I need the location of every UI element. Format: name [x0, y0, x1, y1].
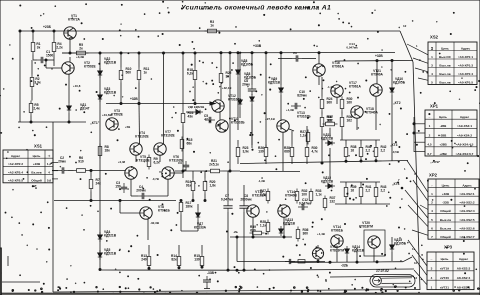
svg-text:Цепь: Цепь	[441, 257, 449, 261]
wire +33V rail	[62, 52, 395, 55]
wire VT14b VT20 drops	[337, 247, 374, 262]
svg-text:КТ3102Б: КТ3102Б	[297, 115, 311, 119]
capacitor C7 0,047мк	[221, 194, 234, 212]
wire bottom row tops	[149, 245, 202, 254]
connector table ХР1	[425, 104, 477, 157]
svg-text:-28В: -28В	[440, 133, 447, 137]
capacitor C2 20мк	[58, 156, 68, 174]
resistor R36b 360	[296, 227, 308, 242]
wire row2 tops	[340, 182, 380, 185]
capacitor C9	[278, 51, 316, 62]
title: Усилитель оконечный левого канала А1	[181, 4, 331, 12]
svg-text:200мк: 200мк	[136, 189, 146, 193]
label +32,1В	[222, 86, 231, 90]
svg-text:4: 4	[48, 170, 50, 174]
svg-text:=А9-ХS2:5: =А9-ХS2:5	[459, 218, 474, 222]
resistor R33 1,1к	[309, 189, 322, 204]
svg-text:150: 150	[115, 185, 121, 189]
label +1,3В	[286, 108, 294, 112]
resistor R23 3,9к	[236, 145, 249, 160]
transistor VT17	[331, 81, 362, 97]
wire mid feedback horizontal	[54, 200, 176, 202]
svg-text:+32В: +32В	[375, 54, 383, 58]
diode VD8c	[238, 53, 257, 118]
svg-text:Адрес: Адрес	[459, 257, 469, 261]
svg-text:=А2-ХР2:5: =А2-ХР2:5	[8, 179, 23, 183]
svg-text:+5В: +5В	[125, 125, 130, 129]
wire bottom-left frame stub	[2, 256, 40, 282]
svg-text:3,9к: 3,9к	[243, 150, 250, 154]
svg-text:КС133А: КС133А	[194, 226, 207, 230]
transistor VT16	[313, 61, 345, 76]
wire R5 to rail	[62, 52, 74, 54]
zener VD7 КС133А	[194, 210, 207, 230]
svg-text:+3,3В: +3,3В	[76, 55, 85, 59]
wire VD6 left	[186, 111, 193, 113]
label +32В mid arrow	[106, 97, 215, 105]
svg-text:←: ←	[430, 183, 433, 187]
wire VD8 net	[237, 52, 239, 130]
svg-text:82к: 82к	[171, 258, 177, 262]
resistor R32 100	[295, 189, 307, 204]
label +23В	[43, 25, 52, 29]
svg-text:КТ940В: КТ940В	[285, 194, 297, 198]
label +3,3В	[76, 55, 85, 59]
svg-text:Адрес: Адрес	[462, 183, 472, 187]
svg-text:+33В: +33В	[253, 44, 262, 48]
resistor R21 2х5,1к horizontal	[208, 159, 223, 173]
svg-text:11: 11	[412, 247, 415, 251]
wire VT21 drop	[375, 96, 377, 130]
svg-text:6: 6	[431, 226, 433, 230]
svg-text:=А9-ХS2:1: =А9-ХS2:1	[459, 192, 474, 196]
label +27,1В	[265, 117, 276, 121]
svg-text:130: 130	[258, 150, 264, 154]
svg-text:-1,3В: -1,3В	[258, 179, 265, 183]
capacitor C5 47	[204, 114, 215, 123]
svg-text:=А2-ХР2:4: =А2-ХР2:4	[8, 170, 23, 174]
resistor R3 (1к) on top rail	[205, 20, 220, 33]
svg-text:820мк: 820мк	[297, 94, 307, 98]
svg-text:ХР2: ХР2	[429, 173, 438, 178]
label -2В	[233, 230, 239, 234]
label С14 0,047мк	[346, 42, 358, 49]
label KT3	[390, 143, 399, 154]
svg-text:КТ961А: КТ961А	[332, 65, 344, 69]
svg-text:6,2к: 6,2к	[187, 72, 194, 76]
label +1,4В	[317, 232, 325, 236]
capacitor C11 small	[285, 259, 295, 264]
svg-text:←: ←	[428, 115, 431, 119]
resistor R24 360	[320, 97, 332, 112]
svg-text:ХS1: ХS1	[34, 144, 43, 149]
diode VD15	[390, 238, 407, 252]
svg-text:16: 16	[351, 149, 355, 153]
cable shield ellipse	[370, 275, 415, 288]
svg-text:68к: 68к	[187, 142, 193, 146]
svg-text:ХР1: ХР1	[430, 104, 439, 109]
svg-text:Общий: Общий	[440, 209, 451, 213]
svg-text:КД521В: КД521В	[104, 91, 117, 95]
svg-text:+1,4В: +1,4В	[317, 232, 325, 236]
transistor VT6	[162, 155, 184, 179]
label +17В note	[430, 160, 441, 164]
resistor R15b 68к	[180, 137, 192, 152]
wire C8 column	[251, 52, 253, 145]
resistor R5 2к horizontal	[74, 43, 89, 55]
svg-text:КД521В: КД521В	[104, 234, 117, 238]
svg-text:=А9-ХS2:4: =А9-ХS2:4	[459, 209, 474, 213]
svg-text:0,047мк: 0,047мк	[299, 202, 312, 206]
resistor R2 3,9к	[30, 75, 41, 90]
diode VD2	[98, 57, 117, 78]
svg-text:360: 360	[303, 232, 309, 236]
svg-text:-33В: -33В	[442, 201, 449, 205]
svg-text:2000мк: 2000мк	[240, 198, 252, 202]
wire lower mid rail	[230, 236, 292, 238]
svg-text:910: 910	[78, 160, 84, 164]
svg-text:Цепь: Цепь	[441, 46, 449, 50]
svg-text:+27,1В: +27,1В	[265, 117, 276, 121]
diode VD8b	[250, 94, 254, 104]
svg-text:680: 680	[284, 150, 290, 154]
wire R18 column	[194, 52, 196, 105]
transistor VT2	[62, 61, 97, 74]
transistor VT14	[278, 190, 298, 217]
svg-text:КТ818ГМ: КТ818ГМ	[359, 225, 373, 229]
svg-text:16: 16	[351, 189, 355, 193]
wire C8d column	[243, 185, 245, 271]
wire KT1 horizontal	[18, 121, 86, 123]
svg-text:⊐: ⊐	[431, 45, 434, 50]
wire R10 top	[120, 52, 122, 68]
svg-text:ХS2: ХS2	[430, 35, 439, 40]
wire R30 column	[341, 97, 343, 141]
svg-text:1,1к: 1,1к	[300, 134, 307, 138]
wire VT19 emitter row	[237, 261, 325, 263]
wire row1 bottoms	[346, 160, 376, 162]
diode VD5	[98, 248, 117, 260]
svg-text:+23В: +23В	[33, 162, 41, 166]
svg-text:+28В: +28В	[439, 143, 447, 147]
resistor R22 39	[219, 71, 231, 86]
wire R6a to KT1 wire	[30, 116, 32, 124]
svg-text:4,5: 4,5	[427, 143, 432, 147]
svg-text:=А0-ХР1:3: =А0-ХР1:3	[458, 63, 473, 67]
wire VD7 net	[180, 200, 198, 232]
wire VT12-VT11 link	[220, 86, 221, 121]
svg-text:+: +	[247, 85, 249, 89]
capacitor C12	[298, 198, 311, 210]
transistor VT1	[64, 14, 81, 39]
resistor R28 680	[284, 145, 294, 160]
transistor VT13	[277, 111, 311, 132]
resistor R37h 132 horizontal	[323, 115, 338, 126]
wire R22 top	[220, 52, 222, 71]
svg-text:1,1к: 1,1к	[316, 193, 323, 197]
svg-text:5: 5	[431, 80, 433, 84]
svg-text:24к: 24к	[96, 182, 102, 186]
wire output row1 tops	[340, 140, 380, 145]
transistor VT4	[130, 131, 150, 155]
svg-text:43к: 43к	[188, 115, 194, 119]
connector table ХР3	[427, 245, 474, 290]
transistor VT21	[370, 69, 384, 96]
wire R24 column	[321, 77, 323, 163]
wire output line 2	[330, 275, 414, 278]
resistor R44 small	[298, 260, 305, 263]
label -1,4В	[327, 85, 334, 89]
svg-text:КТ3102Е: КТ3102Е	[135, 135, 149, 139]
svg-text:Вых.лв: Вых.лв	[440, 226, 451, 230]
svg-text:=А9-ХS2:6: =А9-ХS2:6	[459, 226, 474, 230]
wire VT4-VT7 emitters	[136, 155, 160, 162]
node KT2 test point	[393, 101, 401, 105]
svg-text:-2Б: -2Б	[233, 230, 239, 234]
diode VD10	[390, 77, 406, 95]
cable circle symbol	[373, 276, 382, 285]
svg-text:КД105Б: КД105Б	[244, 76, 257, 80]
svg-text:+23Б: +23Б	[43, 25, 52, 29]
resistor R10 560	[119, 67, 131, 83]
cable wires	[381, 278, 412, 284]
svg-text:КД105Б: КД105Б	[394, 242, 407, 246]
svg-text:Вых.лв: Вых.лв	[439, 63, 450, 67]
scan edge artifact bottom (decorative)	[0, 293, 480, 295]
svg-text:Цепь: Цепь	[442, 183, 450, 187]
svg-text:Общий: Общий	[31, 179, 42, 183]
svg-text:Сб: Сб	[178, 161, 182, 165]
wire VT16 collector	[318, 52, 320, 64]
resistor R6 910	[74, 156, 89, 172]
transistor VT20 boxed	[359, 221, 385, 256]
label -32,3В	[150, 221, 160, 225]
diode VD9	[268, 77, 283, 95]
svg-text:3: 3	[431, 63, 433, 67]
svg-text:12: 12	[403, 24, 407, 28]
resistor R42 2,2	[374, 145, 386, 160]
wire VT14 emitter drop	[283, 217, 285, 238]
wire bottom row bottoms	[148, 266, 203, 269]
svg-text:-33В: -33В	[207, 271, 215, 275]
svg-text:КТ502Е: КТ502Е	[84, 65, 96, 69]
resistor R34 160	[320, 115, 332, 130]
svg-text:ХР3: ХР3	[444, 245, 453, 250]
label +31,6В	[102, 113, 113, 117]
wire VD10 column	[391, 60, 393, 162]
transistor VT7	[154, 130, 176, 155]
svg-text:„КТ2: „КТ2	[393, 101, 401, 105]
wire right vertical bus	[413, 62, 420, 290]
svg-text:=А9-ХS4:1: =А9-ХS4:1	[457, 124, 472, 128]
svg-text:4: 4	[431, 276, 433, 280]
svg-text:=А2-ХР2:2: =А2-ХР2:2	[8, 162, 23, 166]
resistor R27b 2,2к	[260, 189, 270, 204]
svg-text:кVТ20: кVТ20	[440, 276, 449, 280]
svg-text:КТ3102Б: КТ3102Б	[231, 121, 245, 125]
svg-text:-0,5В: -0,5В	[392, 150, 399, 154]
wire VD1 column	[68, 74, 70, 123]
transistor VT18	[351, 106, 379, 118]
svg-text:2к: 2к	[79, 47, 83, 51]
svg-text:560: 560	[126, 71, 132, 75]
svg-text:КД521В: КД521В	[321, 180, 334, 184]
resistor R43 2,2	[374, 185, 386, 200]
wire VT8 emitter	[147, 219, 149, 240]
svg-text:КД521В: КД521В	[268, 81, 281, 85]
wire VT13 nets	[281, 120, 294, 171]
transistor VT12	[212, 94, 242, 112]
pins to XP1	[413, 117, 425, 152]
svg-text:-32,3В: -32,3В	[150, 221, 160, 225]
wire x237 drop	[236, 237, 238, 262]
wire diff emitters join	[131, 179, 168, 196]
svg-text:„+17В": „+17В"	[430, 160, 441, 164]
transistor VT14b	[331, 225, 344, 247]
svg-text:2,2: 2,2	[381, 149, 386, 153]
svg-text:132: 132	[330, 200, 336, 204]
transistor VT5	[125, 155, 151, 179]
svg-text:„КТ1": „КТ1"	[90, 121, 100, 125]
svg-text:2: 2	[431, 201, 433, 205]
wire left tall vertical to bottom	[52, 122, 54, 292]
resistor R7 24к	[89, 177, 101, 192]
svg-text:1: 1	[429, 124, 431, 128]
resistor R39b 680 horizontal	[250, 225, 265, 235]
svg-text:680: 680	[250, 229, 256, 233]
wire R19 R20 stubs	[192, 171, 206, 202]
svg-text:Вых.лв: Вых.лв	[439, 72, 450, 76]
wire R7 top	[90, 171, 92, 177]
svg-text:17.07.82: 17.07.82	[376, 269, 389, 273]
svg-text:Вых.ОС: Вых.ОС	[439, 55, 452, 59]
svg-text:0,047мк: 0,047мк	[221, 198, 234, 202]
wire x292 column	[291, 131, 293, 145]
svg-text:КД105Б: КД105Б	[393, 81, 406, 85]
label +0,38	[118, 125, 130, 164]
connector table ХР2	[428, 173, 479, 240]
zener VD1 Д814Г	[67, 103, 90, 113]
svg-text:-0,7В: -0,7В	[152, 177, 159, 181]
svg-text:=А0-ХР1:5: =А0-ХР1:5	[458, 80, 473, 84]
svg-text:Цепь: Цепь	[439, 115, 447, 119]
wire output line 1	[236, 269, 414, 271]
resistor R27 1,1к	[300, 130, 310, 145]
diode VD12	[321, 176, 335, 188]
capacitor C4 200мк	[136, 185, 148, 199]
wire VT19 leads	[317, 245, 319, 263]
svg-text:2,2: 2,2	[366, 149, 371, 153]
svg-text:КТ961А: КТ961А	[349, 85, 361, 89]
svg-text:1к: 1к	[144, 71, 148, 75]
svg-text:100: 100	[302, 193, 308, 197]
transistor VT12b	[247, 190, 267, 217]
svg-text:2х5,1к: 2х5,1к	[209, 163, 219, 167]
wire input net	[52, 170, 125, 172]
svg-text:5,6: 5,6	[47, 179, 52, 183]
wire VT4 collector up	[138, 103, 140, 145]
capacitor C8 20мк	[242, 79, 256, 95]
svg-text:-1,4В: -1,4В	[327, 85, 334, 89]
wire VT2 collector up	[69, 57, 71, 62]
wire VT1 emitter drop	[69, 40, 71, 55]
wire resistor row y152 bottoms	[238, 160, 307, 165]
svg-text:-28В: -28В	[440, 124, 447, 128]
wire C1 net	[33, 55, 54, 67]
svg-text:Общий: Общий	[440, 235, 451, 239]
diode VD6 horizontal	[188, 105, 205, 114]
svg-text:-32Б: -32Б	[341, 264, 349, 268]
svg-text:20мк: 20мк	[58, 160, 66, 164]
svg-text:+0,38: +0,38	[118, 160, 126, 164]
svg-text:4,7к: 4,7к	[312, 150, 319, 154]
resistor R30 4,7к	[305, 145, 318, 160]
wire VT6 base to feedback	[174, 170, 184, 178]
svg-text:=А0-ХР1:1: =А0-ХР1:1	[458, 55, 473, 59]
svg-text:1: 1	[431, 285, 433, 289]
resistor R19 91к	[186, 179, 195, 194]
resistor R39 16	[344, 185, 356, 200]
resistor R16 43к	[181, 111, 193, 126]
wire R21 ends	[175, 170, 240, 172]
resistor R8 18к	[98, 144, 110, 159]
connector table ХS2	[428, 35, 477, 85]
svg-text:2,4к: 2,4к	[33, 107, 40, 111]
wire VD15 drop	[391, 237, 393, 261]
diode VD14	[345, 245, 365, 256]
junction top rail at x=20	[19, 30, 21, 32]
capacitor C10 820мк	[291, 90, 307, 109]
resistor R6a 2,4к	[29, 101, 40, 116]
node KT1 test point	[90, 121, 100, 125]
wire -32V label	[341, 264, 349, 268]
svg-text:12: 12	[414, 261, 418, 265]
svg-text:4: 4	[431, 209, 433, 213]
wire VT12b emitter drop	[252, 217, 254, 238]
label +33В	[253, 44, 262, 48]
label 12 top	[403, 24, 407, 28]
wire x252 column lower	[251, 120, 253, 145]
resistor R38 16	[344, 145, 356, 160]
svg-text:←: ←	[430, 257, 433, 261]
transistor VT3	[106, 109, 124, 130]
wire row2 bottoms	[335, 200, 390, 205]
wire x100 vertical	[99, 52, 101, 271]
wire R16 column	[182, 52, 184, 171]
capacitor C1 1500	[37, 50, 53, 63]
svg-text:13: 13	[414, 276, 418, 280]
wire top rail bend to right bus	[400, 31, 413, 62]
diode VD3	[98, 87, 117, 102]
handwritten mark	[376, 269, 389, 273]
svg-text:КТ940А: КТ940А	[366, 111, 378, 115]
svg-text:КД521В: КД521В	[104, 252, 117, 256]
svg-text:18к: 18к	[105, 149, 111, 153]
svg-text:1: 1	[431, 55, 433, 59]
svg-text:Адрес: Адрес	[461, 46, 471, 50]
label KT4	[392, 182, 403, 189]
resistor R40 2,2	[359, 145, 371, 160]
svg-text:91к: 91к	[186, 184, 192, 188]
capacitor C3 150	[115, 181, 127, 193]
svg-text:47: 47	[204, 118, 208, 122]
wire R1/R4 top ties	[32, 30, 55, 40]
pins to XS2	[407, 44, 428, 80]
label +32В right	[375, 54, 383, 58]
resistor R4 2,2к	[52, 40, 63, 55]
svg-text:+10,8: +10,8	[73, 84, 81, 88]
resistor R14 82к	[171, 254, 181, 269]
